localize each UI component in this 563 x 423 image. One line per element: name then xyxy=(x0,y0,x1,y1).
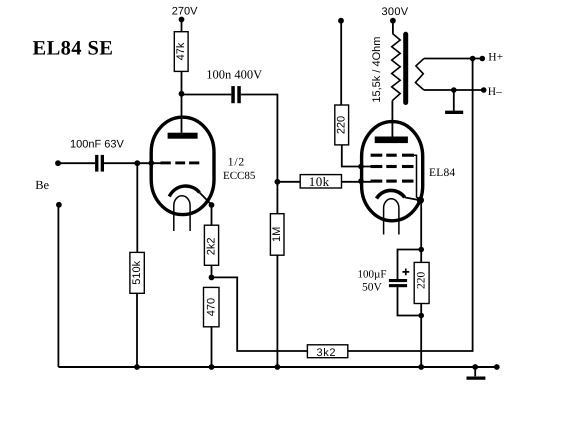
svg-text:50V: 50V xyxy=(362,282,383,294)
svg-text:2k2: 2k2 xyxy=(206,237,218,255)
svg-text:3k2: 3k2 xyxy=(317,347,337,359)
svg-text:EL84 SE: EL84 SE xyxy=(33,38,114,60)
svg-text:ECC85: ECC85 xyxy=(223,170,256,182)
svg-text:220: 220 xyxy=(416,272,428,290)
svg-text:47k: 47k xyxy=(175,42,187,60)
svg-text:1M: 1M xyxy=(271,227,283,242)
svg-text:10k: 10k xyxy=(309,174,330,189)
svg-text:H+: H+ xyxy=(488,52,503,64)
svg-text:H–: H– xyxy=(488,86,502,98)
svg-text:100nF 63V: 100nF 63V xyxy=(70,138,124,150)
svg-text:Be: Be xyxy=(35,178,49,192)
svg-text:100n 400V: 100n 400V xyxy=(206,67,262,81)
svg-text:100µF: 100µF xyxy=(358,269,387,281)
svg-text:270V: 270V xyxy=(172,5,198,17)
svg-text:EL84: EL84 xyxy=(429,167,455,179)
svg-text:1/2: 1/2 xyxy=(228,157,245,169)
svg-text:15,5k / 4Ohm: 15,5k / 4Ohm xyxy=(371,37,383,103)
svg-text:510k: 510k xyxy=(131,260,143,284)
svg-text:220: 220 xyxy=(336,116,348,134)
svg-text:470: 470 xyxy=(205,298,217,316)
svg-text:300V: 300V xyxy=(382,6,409,18)
